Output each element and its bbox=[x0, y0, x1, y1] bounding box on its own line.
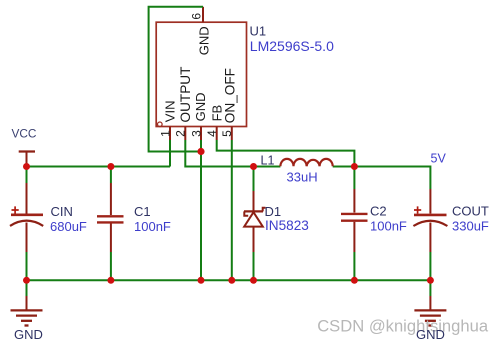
wire D1 bottom bbox=[253, 252, 255, 280]
svg-text:C2: C2 bbox=[370, 204, 387, 219]
wire ground rail bbox=[27, 279, 431, 281]
node D1 ground junction bbox=[250, 277, 257, 284]
VCC power symbol bbox=[19, 152, 35, 166]
wire pin6 loop to GND net bbox=[149, 7, 203, 152]
wire pin2 OUTPUT drop bbox=[185, 140, 253, 167]
pin 6 stub bbox=[202, 7, 204, 22]
svg-text:1: 1 bbox=[158, 130, 172, 137]
svg-text:VCC: VCC bbox=[12, 127, 37, 141]
svg-text:4: 4 bbox=[205, 130, 219, 137]
wire right ground stem bbox=[429, 280, 431, 296]
svg-text:OUTPUT: OUTPUT bbox=[178, 67, 193, 123]
svg-text:GND: GND bbox=[14, 327, 43, 342]
wire C1 top drop bbox=[110, 167, 112, 184]
svg-text:ON_OFF: ON_OFF bbox=[223, 68, 238, 123]
svg-text:3: 3 bbox=[189, 130, 203, 137]
node D1/L1 junction bbox=[250, 163, 257, 170]
svg-text:C1: C1 bbox=[134, 204, 151, 219]
capacitor C1 100nF bbox=[97, 183, 124, 252]
wire C2 bottom bbox=[353, 252, 355, 280]
svg-text:GND: GND bbox=[416, 327, 445, 342]
svg-text:L1: L1 bbox=[261, 154, 275, 168]
pin 1 stub bbox=[169, 127, 171, 141]
svg-text:GND: GND bbox=[193, 93, 208, 122]
pin 3 stub bbox=[200, 127, 202, 141]
svg-text:D1: D1 bbox=[265, 204, 282, 219]
wire pin5 ON_OFF drop bbox=[231, 140, 233, 280]
node VCC junction bbox=[23, 163, 30, 170]
wire D1 node to L1 bbox=[254, 166, 281, 168]
op-amp U1 body (LM2596S-5.0 regulator box) bbox=[156, 22, 246, 126]
svg-text:VIN: VIN bbox=[163, 101, 178, 123]
node pin5 ground junction bbox=[228, 277, 235, 284]
node output junction bbox=[351, 163, 358, 170]
node C2 ground junction bbox=[351, 277, 358, 284]
wire pin4 FB to output node bbox=[217, 140, 355, 167]
pin 5 stub bbox=[231, 127, 233, 141]
node COUT ground junction bbox=[427, 277, 434, 284]
wire C1 bottom bbox=[110, 252, 112, 280]
node C1 ground junction bbox=[107, 277, 114, 284]
svg-text:680uF: 680uF bbox=[50, 219, 87, 234]
wire COUT bottom bbox=[429, 252, 431, 280]
capacitor CIN (polarized 680uF) bbox=[10, 183, 43, 252]
diode D1 IN5823 (schottky) bbox=[244, 191, 265, 252]
svg-text:COUT: COUT bbox=[452, 204, 489, 219]
svg-text:100nF: 100nF bbox=[134, 219, 171, 234]
wire pin1 VIN drop bbox=[169, 140, 171, 167]
svg-text:33uH: 33uH bbox=[287, 169, 318, 184]
node pin3 ground junction bbox=[198, 277, 205, 284]
inductor L1 33uH bbox=[280, 159, 332, 166]
svg-text:GND: GND bbox=[197, 26, 212, 55]
wire L1 to output node bbox=[333, 166, 355, 168]
pin 4 stub bbox=[216, 127, 218, 141]
pin 2 stub bbox=[184, 127, 186, 141]
node CIN ground junction bbox=[23, 277, 30, 284]
ground symbol left bbox=[11, 296, 43, 326]
ground symbol right bbox=[414, 296, 446, 326]
svg-text:CIN: CIN bbox=[51, 204, 73, 219]
svg-text:100nF: 100nF bbox=[370, 218, 407, 233]
wire C2 top drop bbox=[353, 167, 355, 190]
wire VCC rail bbox=[27, 166, 171, 168]
svg-text:IN5823: IN5823 bbox=[265, 218, 309, 233]
svg-text:5V: 5V bbox=[431, 151, 447, 165]
capacitor COUT (polarized 330uF) bbox=[413, 189, 447, 252]
wire CIN bottom bbox=[26, 252, 28, 280]
capacitor C2 100nF bbox=[341, 189, 368, 252]
svg-text:LM2596S-5.0: LM2596S-5.0 bbox=[250, 38, 334, 54]
svg-text:CSDN @knightsinghua: CSDN @knightsinghua bbox=[317, 316, 489, 335]
node GND loop / pin3 junction bbox=[197, 148, 204, 155]
wire left ground stem bbox=[26, 280, 28, 296]
wire D1 top lead drop bbox=[253, 167, 255, 192]
svg-text:6: 6 bbox=[189, 13, 203, 20]
svg-text:330uF: 330uF bbox=[452, 218, 489, 233]
node C1 top junction bbox=[107, 163, 114, 170]
wire CIN top drop bbox=[26, 167, 28, 184]
svg-text:U1: U1 bbox=[250, 24, 267, 39]
svg-text:5: 5 bbox=[220, 130, 234, 137]
wire output node to COUT corner bbox=[354, 167, 430, 190]
wire pin3 GND drop bbox=[200, 140, 202, 280]
svg-text:2: 2 bbox=[174, 130, 188, 137]
